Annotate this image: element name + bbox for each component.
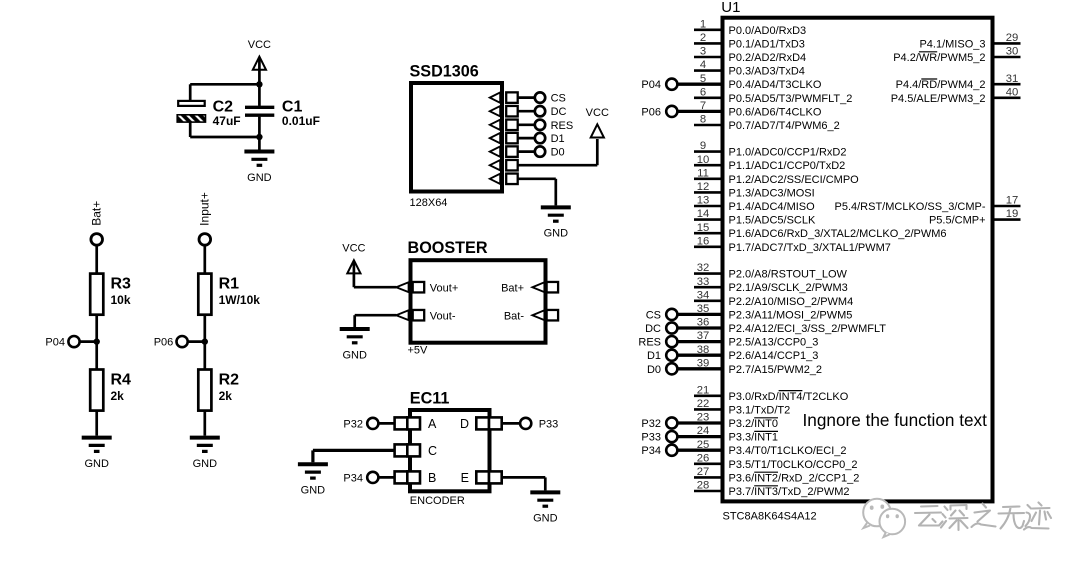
svg-text:P2.1/A9/SCLK_2/PWM3: P2.1/A9/SCLK_2/PWM3 [729, 282, 848, 294]
resistor R4 [90, 370, 131, 411]
svg-text:P0.6/AD6/T4CLKO: P0.6/AD6/T4CLKO [729, 106, 822, 118]
svg-text:P0.1/AD1/TxD3: P0.1/AD1/TxD3 [729, 38, 805, 50]
wire (pin E to GND) [502, 477, 546, 490]
U1 pin 10 stub [694, 164, 722, 167]
junction [256, 81, 262, 87]
svg-text:GND: GND [247, 172, 272, 184]
U1 pin 21 stub [694, 394, 722, 397]
U1 pin 4 stub [694, 69, 722, 72]
U1 pin 16 stub [694, 246, 722, 249]
svg-text:P2.5/A13/CCP0_3: P2.5/A13/CCP0_3 [729, 337, 819, 349]
BOOSTER pin Bat- [504, 310, 558, 322]
capacitor C1 [245, 98, 320, 128]
overline [754, 417, 778, 419]
svg-text:CS: CS [646, 309, 661, 321]
svg-text:24: 24 [697, 425, 710, 437]
svg-text:Bat+: Bat+ [501, 282, 524, 294]
U1 pin 6 stub [694, 97, 722, 100]
svg-text:D1: D1 [551, 133, 565, 145]
svg-text:STC8A8K64S4A12: STC8A8K64S4A12 [723, 511, 817, 523]
svg-text:31: 31 [1006, 73, 1019, 85]
svg-text:3: 3 [700, 46, 706, 58]
U1 pin 22 stub [694, 408, 722, 411]
resistor R2 [198, 370, 239, 411]
wire [189, 84, 192, 100]
terminal Bat+ [91, 234, 103, 246]
svg-text:GND: GND [301, 485, 326, 497]
svg-text:33: 33 [697, 276, 710, 288]
wire [203, 315, 206, 370]
SSD1306 pin 1 [490, 92, 518, 103]
svg-text:C: C [428, 444, 437, 458]
svg-text:P34: P34 [641, 445, 661, 457]
svg-text:22: 22 [697, 398, 710, 410]
SSD1306 pin 3 [490, 120, 518, 131]
svg-text:7: 7 [700, 100, 706, 112]
capacitor C2 [177, 98, 240, 128]
svg-text:26: 26 [697, 452, 710, 464]
node P04 tap [45, 336, 99, 349]
svg-text:Input+: Input+ [198, 192, 212, 226]
svg-text:12: 12 [697, 181, 710, 193]
svg-text:27: 27 [697, 466, 710, 478]
svg-text:2k: 2k [219, 389, 233, 403]
svg-text:P0.4/AD4/T3CLKO: P0.4/AD4/T3CLKO [729, 79, 822, 91]
svg-text:SSD1306: SSD1306 [410, 62, 479, 80]
svg-text:P33: P33 [641, 432, 661, 444]
svg-text:A: A [428, 417, 437, 431]
svg-text:P2.0/A8/RSTOUT_LOW: P2.0/A8/RSTOUT_LOW [729, 269, 848, 281]
svg-text:DC: DC [645, 323, 661, 335]
svg-text:30: 30 [1006, 46, 1019, 58]
wire [190, 136, 259, 139]
svg-text:25: 25 [697, 439, 710, 451]
svg-text:P3.0/RxD/INT4/T2CLKO: P3.0/RxD/INT4/T2CLKO [729, 391, 849, 403]
svg-text:P0.3/AD3/TxD4: P0.3/AD3/TxD4 [729, 66, 805, 78]
svg-text:P1.6/ADC6/RxD_3/XTAL2/MCLKO_2/: P1.6/ADC6/RxD_3/XTAL2/MCLKO_2/PWM6 [729, 228, 947, 240]
svg-text:1W/10k: 1W/10k [219, 293, 261, 307]
wire (pin7 to GND) [518, 179, 556, 206]
U1 pin 1 stub [694, 28, 722, 31]
svg-text:Bat+: Bat+ [90, 201, 104, 226]
svg-text:R4: R4 [111, 371, 132, 388]
svg-text:P2.2/A10/MISO_2/PWM4: P2.2/A10/MISO_2/PWM4 [729, 296, 854, 308]
overline [754, 471, 778, 473]
node RES (U1 pin 37) [638, 336, 722, 349]
watermark text 云深之无迹 [915, 503, 1051, 531]
svg-text:EC11: EC11 [410, 390, 450, 408]
svg-text:P33: P33 [539, 419, 559, 431]
VCC power symbol [347, 260, 360, 273]
overline [754, 430, 778, 432]
U1 pin 2 stub [694, 42, 722, 45]
U1 pin 33 stub [694, 286, 722, 289]
wire [190, 83, 259, 86]
overline [754, 485, 778, 487]
node D1 (U1 pin 38) [647, 350, 722, 363]
svg-text:P1.4/ADC4/MISO: P1.4/ADC4/MISO [729, 201, 816, 213]
svg-text:C2: C2 [213, 98, 234, 115]
svg-text:35: 35 [697, 303, 710, 315]
svg-text:37: 37 [697, 330, 710, 342]
svg-text:P3.3/INT1: P3.3/INT1 [729, 432, 779, 444]
svg-text:P06: P06 [154, 337, 174, 349]
wire (pin6 to VCC) [518, 139, 598, 165]
svg-text:P1.2/ADC2/SS/ECI/CMPO: P1.2/ADC2/SS/ECI/CMPO [729, 174, 860, 186]
svg-text:P4.4/RD/PWM4_2: P4.4/RD/PWM4_2 [896, 79, 986, 91]
node CS (U1 pin 35) [646, 309, 722, 322]
wire [203, 411, 206, 436]
VCC power symbol [591, 124, 604, 137]
svg-text:P3.4/T0/T1CLKO/ECI_2: P3.4/T0/T1CLKO/ECI_2 [729, 445, 847, 457]
wire / terminal CS [518, 92, 566, 104]
node P33 (U1 pin 24) [641, 431, 722, 444]
node P34 [343, 472, 394, 485]
svg-text:P3.6/INT2/RxD_2/CCP1_2: P3.6/INT2/RxD_2/CCP1_2 [729, 472, 860, 484]
svg-text:Bat-: Bat- [504, 310, 525, 322]
svg-text:P0.2/AD2/RxD4: P0.2/AD2/RxD4 [729, 52, 807, 64]
svg-text:DC: DC [551, 106, 567, 118]
svg-text:17: 17 [1006, 195, 1019, 207]
svg-text:D0: D0 [647, 364, 661, 376]
U1 pin 13 stub [694, 205, 722, 208]
wire [354, 262, 397, 288]
svg-text:P32: P32 [343, 419, 363, 431]
wire [355, 315, 397, 327]
SSD1306 pin 5 [490, 146, 518, 157]
svg-text:P0.5/AD5/T3/PWMFLT_2: P0.5/AD5/T3/PWMFLT_2 [729, 93, 853, 105]
svg-text:R2: R2 [219, 371, 240, 388]
overline [921, 78, 937, 80]
svg-text:GND: GND [533, 513, 558, 525]
svg-text:GND: GND [84, 458, 109, 470]
svg-text:14: 14 [697, 208, 710, 220]
wire [95, 315, 98, 370]
terminal Input+ [199, 234, 211, 246]
svg-text:0.01uF: 0.01uF [282, 114, 320, 128]
wire [258, 58, 261, 106]
svg-text:Vout+: Vout+ [430, 282, 458, 294]
svg-text:+5V: +5V [408, 345, 429, 357]
svg-text:28: 28 [697, 480, 710, 492]
overline [779, 390, 803, 392]
SSD1306 pin 7 [490, 174, 518, 185]
svg-text:C1: C1 [282, 98, 303, 115]
U1 pin 32 stub [694, 272, 722, 275]
svg-text:VCC: VCC [342, 243, 365, 255]
svg-text:P1.7/ADC7/TxD_3/XTAL1/PWM7: P1.7/ADC7/TxD_3/XTAL1/PWM7 [729, 242, 891, 254]
svg-text:GND: GND [342, 349, 367, 361]
svg-text:BOOSTER: BOOSTER [408, 239, 488, 257]
svg-text:P0.7/AD7/T4/PWM6_2: P0.7/AD7/T4/PWM6_2 [729, 120, 840, 132]
svg-text:15: 15 [697, 222, 710, 234]
svg-text:Ingnore the function text: Ingnore the function text [803, 410, 988, 430]
svg-text:GND: GND [193, 458, 218, 470]
svg-text:R1: R1 [219, 275, 240, 292]
svg-text:P2.4/A12/ECI_3/SS_2/PWMFLT: P2.4/A12/ECI_3/SS_2/PWMFLT [729, 323, 887, 335]
svg-text:8: 8 [700, 114, 706, 126]
svg-text:P5.5/CMP+: P5.5/CMP+ [929, 215, 986, 227]
svg-text:P4.1/MISO_3: P4.1/MISO_3 [919, 38, 985, 50]
svg-text:CS: CS [551, 93, 566, 105]
svg-text:11: 11 [697, 167, 709, 179]
U1 pin 26 stub [694, 462, 722, 465]
svg-text:21: 21 [697, 384, 710, 396]
U1 pin 27 stub [694, 476, 722, 479]
svg-text:128X64: 128X64 [410, 197, 448, 209]
svg-text:P0.0/AD0/RxD3: P0.0/AD0/RxD3 [729, 25, 807, 37]
svg-text:9: 9 [700, 140, 706, 152]
resistor R3 [90, 274, 131, 315]
svg-text:P3.7/INT3/TxD_2/PWM2: P3.7/INT3/TxD_2/PWM2 [729, 486, 850, 498]
node P04 (U1 pin 5) [641, 79, 722, 92]
wire / terminal RES [518, 120, 574, 132]
svg-text:D0: D0 [551, 147, 565, 159]
wire [258, 117, 261, 150]
U1 pin 17 stub [993, 205, 1021, 208]
svg-text:P04: P04 [45, 337, 65, 349]
BOOSTER pin Vout+ [396, 282, 458, 294]
U1 pin 3 stub [694, 56, 722, 59]
node DC (U1 pin 36) [645, 322, 722, 335]
ground [244, 152, 274, 184]
svg-text:6: 6 [700, 86, 706, 98]
svg-text:23: 23 [697, 412, 710, 424]
ground [190, 438, 220, 470]
svg-text:VCC: VCC [586, 107, 609, 119]
svg-text:P4.2/WR/PWM5_2: P4.2/WR/PWM5_2 [893, 52, 985, 64]
ground [340, 329, 370, 361]
svg-text:R3: R3 [111, 275, 132, 292]
svg-text:13: 13 [697, 195, 710, 207]
svg-text:P2.7/A15/PWM2_2: P2.7/A15/PWM2_2 [729, 364, 823, 376]
U1 pin 12 stub [694, 191, 722, 194]
svg-text:10: 10 [697, 154, 710, 166]
ground [82, 438, 112, 470]
overline [919, 51, 937, 53]
resistor R1 [198, 274, 260, 315]
svg-text:16: 16 [697, 235, 710, 247]
svg-text:P06: P06 [641, 106, 661, 118]
svg-text:39: 39 [697, 357, 710, 369]
U1 pin 29 stub [993, 42, 1021, 45]
EC11 pin B [395, 471, 437, 485]
U1 pin 31 stub [993, 83, 1021, 86]
svg-text:P1.3/ADC3/MOSI: P1.3/ADC3/MOSI [729, 187, 815, 199]
U1 pin 28 stub [694, 490, 722, 493]
node P32 [343, 418, 394, 431]
svg-text:P3.5/T1/T0CLKO/CCP0_2: P3.5/T1/T0CLKO/CCP0_2 [729, 459, 858, 471]
svg-text:36: 36 [697, 317, 710, 329]
svg-text:P1.5/ADC5/SCLK: P1.5/ADC5/SCLK [729, 215, 816, 227]
watermark logo [863, 499, 905, 537]
svg-text:B: B [428, 471, 436, 485]
U1 pin 30 stub [993, 56, 1021, 59]
svg-text:32: 32 [697, 262, 710, 274]
svg-text:P4.5/ALE/PWM3_2: P4.5/ALE/PWM3_2 [891, 93, 986, 105]
ground [298, 464, 328, 496]
svg-text:RES: RES [638, 337, 661, 349]
SSD1306 pin 2 [490, 106, 518, 117]
svg-text:29: 29 [1006, 32, 1019, 44]
svg-text:P34: P34 [343, 473, 363, 485]
U1 pin 34 stub [694, 299, 722, 302]
junction [256, 134, 262, 140]
U1 pin 9 stub [694, 150, 722, 153]
svg-text:P3.1/TxD/T2: P3.1/TxD/T2 [729, 404, 791, 416]
svg-text:40: 40 [1006, 86, 1019, 98]
node P06 tap [154, 336, 208, 349]
node P33 [502, 418, 559, 431]
wire [203, 245, 206, 273]
svg-text:Vout-: Vout- [430, 310, 456, 322]
U1 pin 40 stub [993, 97, 1021, 100]
svg-text:4: 4 [700, 59, 706, 71]
VCC power symbol [253, 57, 266, 70]
EC11 pin E [461, 471, 502, 485]
wire [95, 411, 98, 436]
svg-text:P32: P32 [641, 418, 661, 430]
svg-text:P2.6/A14/CCP1_3: P2.6/A14/CCP1_3 [729, 350, 819, 362]
U1 pin 8 stub [694, 124, 722, 127]
BOOSTER pin Bat+ [501, 282, 558, 294]
EC11 pin A [395, 417, 437, 431]
U1 pin 14 stub [694, 218, 722, 221]
wire [189, 122, 192, 137]
svg-text:19: 19 [1006, 208, 1019, 220]
svg-text:D1: D1 [647, 350, 661, 362]
EC11 pin C [395, 444, 437, 458]
svg-text:5: 5 [700, 73, 706, 85]
wire / terminal D1 [518, 133, 565, 145]
node P06 (U1 pin 7) [641, 106, 722, 119]
EC11 pin D [460, 417, 502, 431]
svg-text:P1.1/ADC1/CCP0/TxD2: P1.1/ADC1/CCP0/TxD2 [729, 160, 846, 172]
U1 pin 15 stub [694, 232, 722, 235]
ground [530, 492, 560, 524]
node P32 (U1 pin 23) [641, 417, 722, 430]
SSD1306 pin 6 [490, 160, 518, 171]
svg-text:1: 1 [700, 18, 706, 30]
svg-text:GND: GND [544, 228, 569, 240]
svg-text:38: 38 [697, 344, 710, 356]
svg-text:P1.0/ADC0/CCP1/RxD2: P1.0/ADC0/CCP1/RxD2 [729, 147, 847, 159]
wire / terminal D0 [518, 146, 565, 158]
wire / terminal DC [518, 106, 567, 118]
svg-text:2: 2 [700, 32, 706, 44]
svg-text:47uF: 47uF [213, 114, 241, 128]
svg-text:U1: U1 [721, 0, 740, 16]
U1 pin 19 stub [993, 218, 1021, 221]
svg-text:2k: 2k [111, 389, 125, 403]
wire [95, 245, 98, 273]
node D0 (U1 pin 39) [647, 363, 722, 376]
U1 pin 11 stub [694, 178, 722, 181]
svg-text:P2.3/A11/MOSI_2/PWM5: P2.3/A11/MOSI_2/PWM5 [729, 309, 853, 321]
SSD1306 pin 4 [490, 133, 518, 144]
svg-text:P5.4/RST/MCLKO/SS_3/CMP-: P5.4/RST/MCLKO/SS_3/CMP- [835, 201, 986, 213]
svg-text:10k: 10k [111, 293, 131, 307]
svg-text:VCC: VCC [248, 39, 271, 51]
svg-text:E: E [461, 471, 469, 485]
svg-text:ENCODER: ENCODER [410, 495, 465, 507]
wire (pin C to GND) [313, 450, 395, 462]
BOOSTER pin Vout- [396, 310, 456, 322]
node P34 (U1 pin 25) [641, 445, 722, 458]
ground [541, 207, 571, 239]
svg-text:P04: P04 [641, 79, 661, 91]
svg-text:RES: RES [551, 120, 574, 132]
svg-text:D: D [460, 417, 469, 431]
svg-text:P3.2/INT0: P3.2/INT0 [729, 418, 779, 430]
svg-text:34: 34 [697, 289, 710, 301]
